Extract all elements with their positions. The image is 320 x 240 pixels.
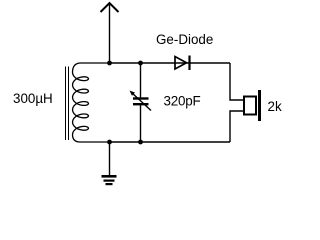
svg-text:320pF: 320pF [164,94,201,109]
svg-text:300µH: 300µH [13,91,53,106]
svg-text:Ge-Diode: Ge-Diode [156,32,213,47]
svg-text:2k: 2k [268,99,282,114]
